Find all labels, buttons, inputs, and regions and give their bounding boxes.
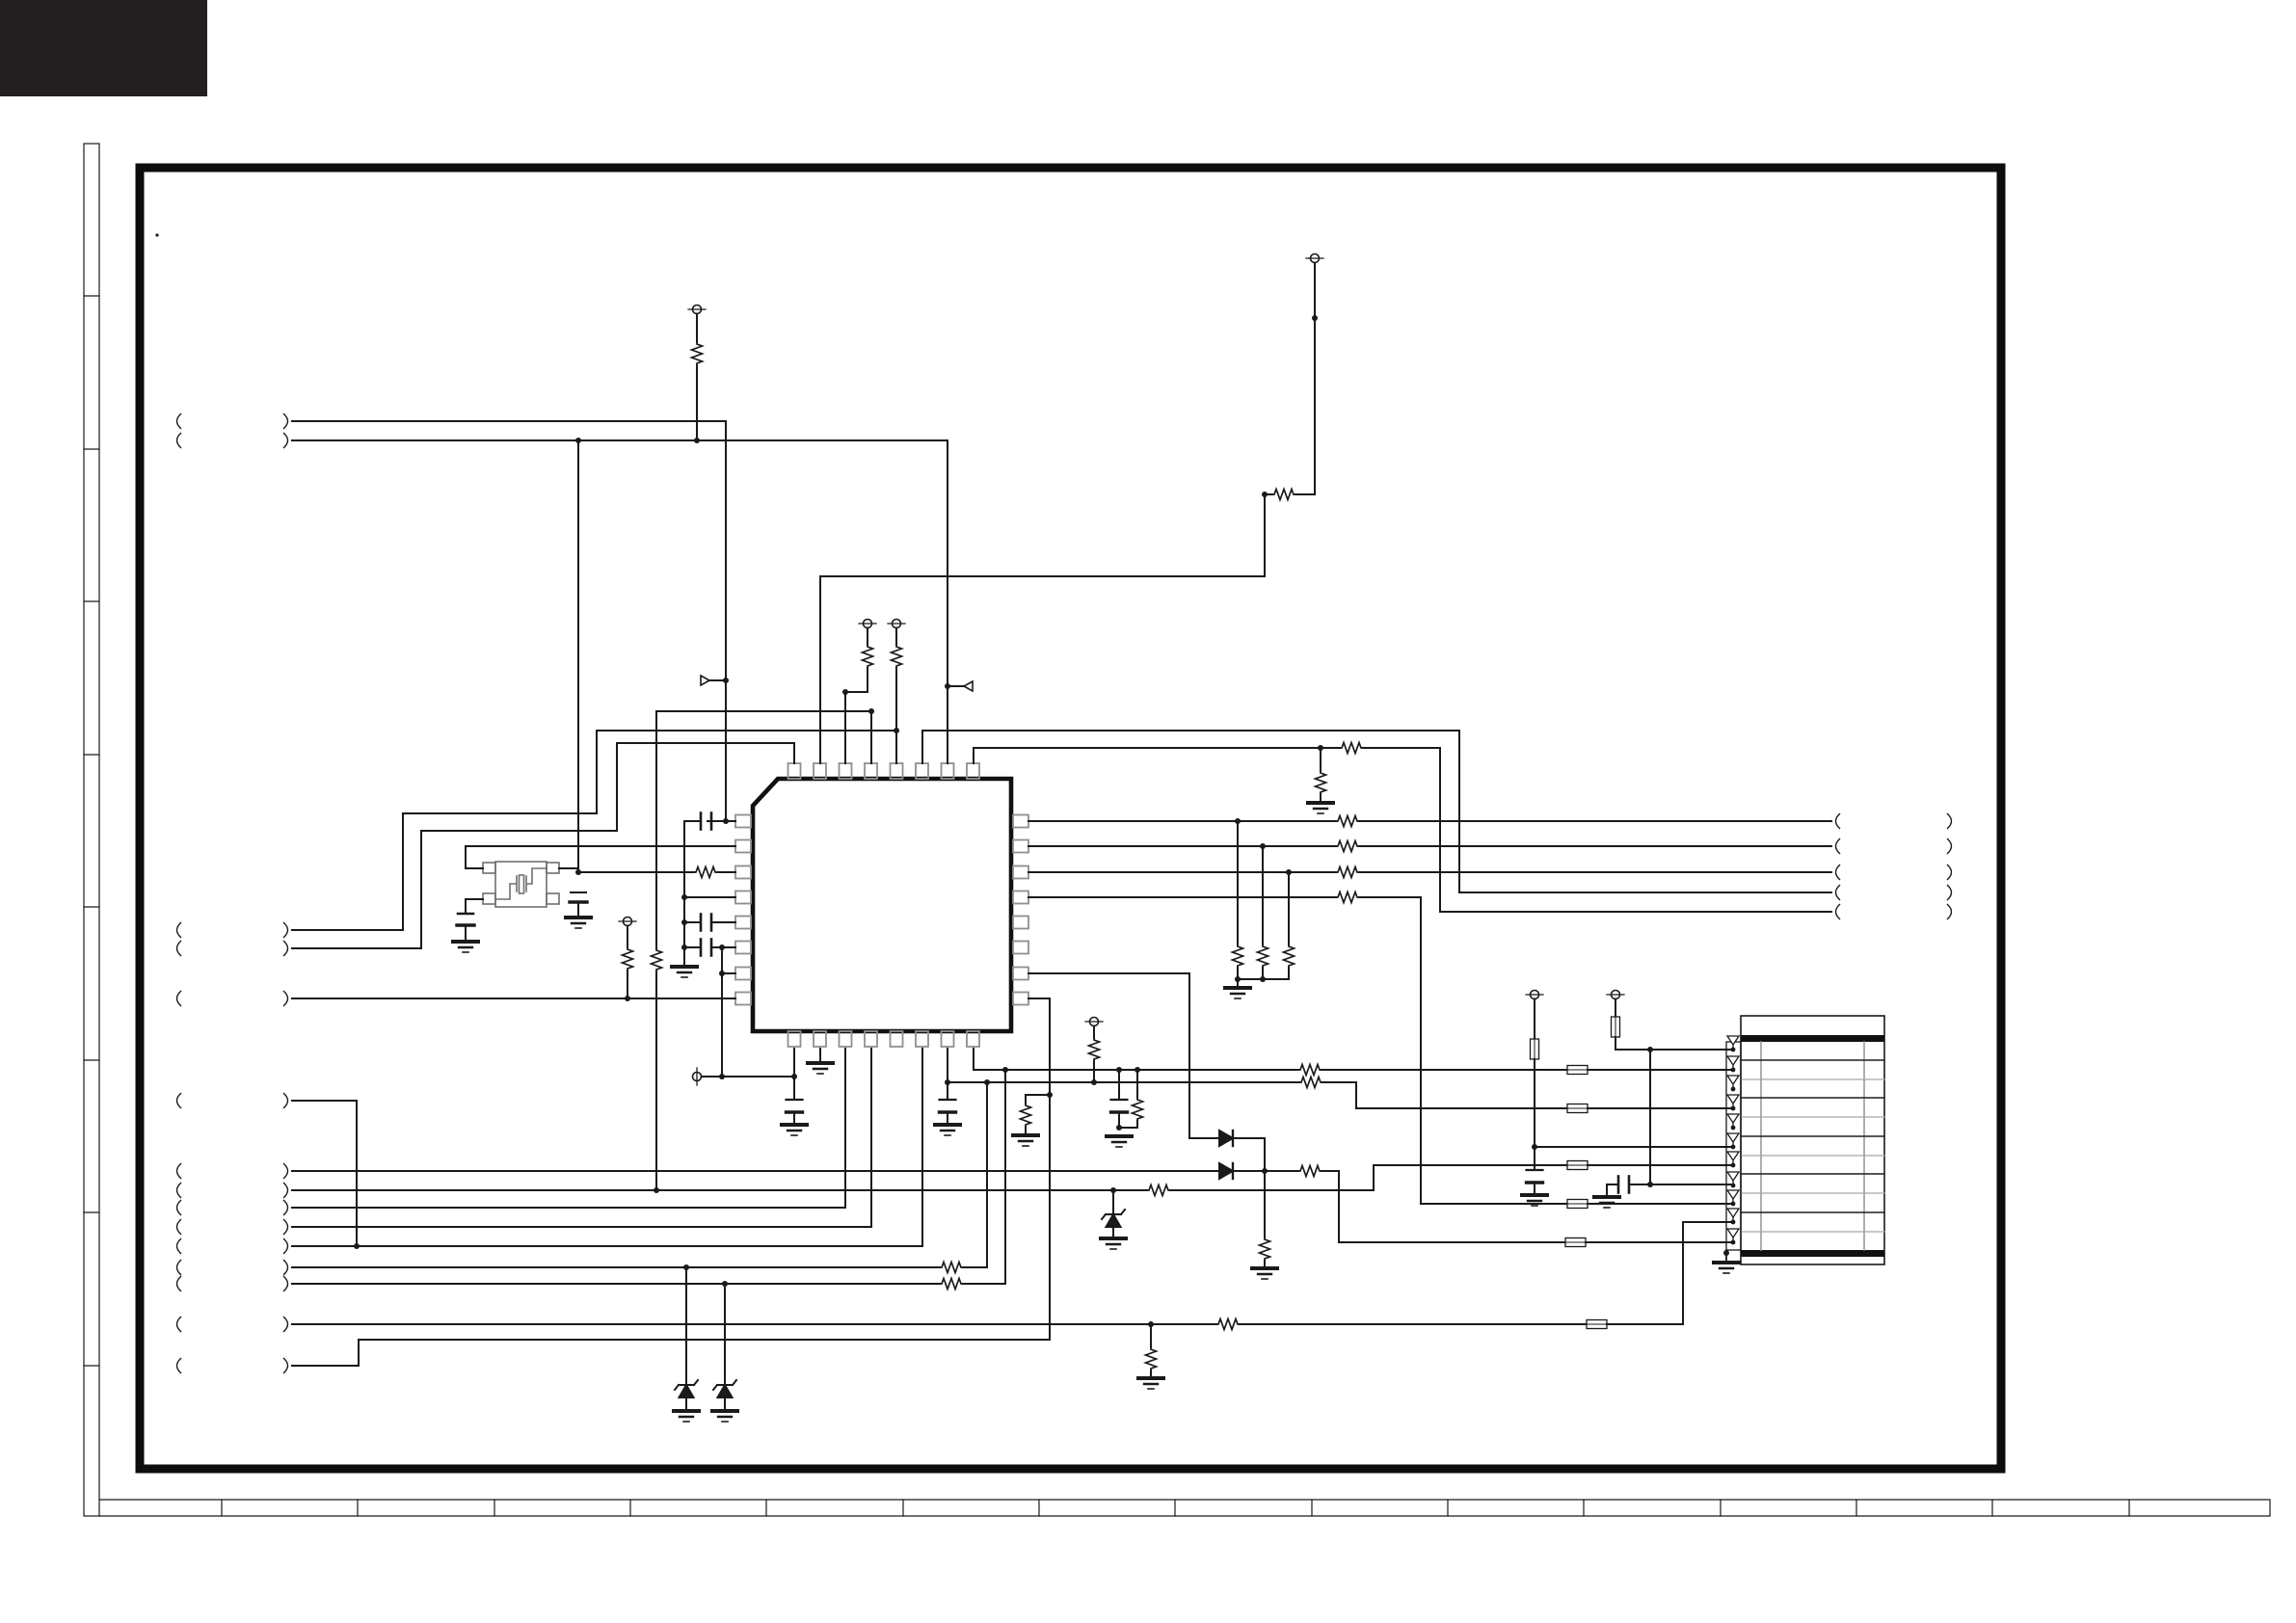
resistor R12 horizontal row1315 xyxy=(940,1263,963,1273)
terminal T5 xyxy=(619,918,636,926)
junction arrow stub B xyxy=(945,683,950,689)
junction phi row pin1B xyxy=(791,1074,797,1079)
wire pin4R row y931 xyxy=(1028,896,1336,898)
ground below rail x710 xyxy=(672,967,697,977)
connector pin 2 xyxy=(1727,1056,1739,1072)
junction D1 D2 node xyxy=(1262,1168,1268,1174)
resistor R10 horizontal on row1123 xyxy=(1299,1078,1322,1088)
wire F8 to connector pin1 row xyxy=(1615,1037,1730,1050)
wire R5 to pin5T xyxy=(895,668,897,763)
wire ZD3 to ground xyxy=(1112,1227,1114,1237)
wire row1215 to diode D2 xyxy=(292,1170,1219,1172)
wire row1123 from pin7B net xyxy=(948,1081,1299,1083)
wire R2 leads xyxy=(1265,493,1315,495)
resistor R5 vertical xyxy=(892,645,902,668)
wire pin6 row xyxy=(1535,1146,1730,1148)
wire phi row xyxy=(702,1076,795,1078)
junction x1712 pin8 row xyxy=(1647,1182,1653,1187)
terminal T6 xyxy=(1085,1018,1103,1026)
right closing arc row926 xyxy=(1948,886,1952,900)
wire pin2L to crystal TL pin xyxy=(466,846,735,868)
junction x749 phi row xyxy=(719,1074,725,1079)
wire crystal junction vertical x600 xyxy=(577,440,579,872)
wire net A horizontal+vertical to pin1L cap xyxy=(292,421,726,821)
resistor R4 vertical xyxy=(863,645,873,668)
resistor R17 horizontal row878 xyxy=(1336,841,1359,852)
connector CN1 outer body xyxy=(1741,1016,1884,1264)
wire R11 to row1123 xyxy=(1093,1061,1095,1082)
capacitor C2 below crystal junction xyxy=(571,891,586,893)
junction row1235 zener xyxy=(1110,1187,1116,1193)
wire R21 to common xyxy=(1288,968,1290,979)
ground below C8 xyxy=(1107,1136,1132,1147)
connector pin 6 xyxy=(1727,1133,1739,1149)
off-page connector pair net B left xyxy=(177,434,181,448)
junction pin4T corner xyxy=(868,708,874,714)
wire F4 to connector pin11 xyxy=(1586,1241,1730,1243)
junction x1089 R26 xyxy=(1047,1092,1053,1098)
wire row852 to right OPC xyxy=(1359,820,1831,822)
resistor R22 horizontal row931 xyxy=(1336,892,1359,903)
ground below C10 lead xyxy=(1594,1197,1619,1208)
wire row1215 jog down to pin11 row xyxy=(1322,1171,1565,1242)
wire drop x1712 from pin1 row to pin8 row xyxy=(1649,1050,1651,1184)
right arc row1235 xyxy=(284,1184,288,1198)
capacitor C2 lower plate xyxy=(570,900,587,903)
wire row1142 to row1293 drop xyxy=(292,1101,357,1246)
wire pin2R row y878 xyxy=(1028,845,1336,847)
wire pin8R long drop to row1390 xyxy=(359,998,1050,1340)
wire C1 leads xyxy=(684,820,735,822)
wire zener ZD3 drop on row1235 xyxy=(1112,1190,1114,1214)
ground below C2 xyxy=(566,918,591,928)
junction T6 row1123 xyxy=(1091,1079,1097,1085)
resistor R20 vertical xyxy=(1258,945,1268,968)
junction row1374 R28 xyxy=(1148,1321,1154,1327)
wire pin6B to row1293 xyxy=(292,1049,922,1246)
wire C4 leads xyxy=(684,921,735,923)
right closing arc row946 xyxy=(1948,905,1952,919)
right arc row1142 xyxy=(284,1094,288,1108)
wire branch resistor R26 from x1089 xyxy=(1026,1095,1050,1104)
junction C8 row1110 xyxy=(1116,1067,1122,1073)
IC U1 body xyxy=(753,779,1011,1031)
wire net pin2T: down, left run y598, down to pin2T xyxy=(820,494,1265,763)
wire net S1 staircase to pin6T and right OPC y926 xyxy=(292,731,896,930)
zener diode ZD2 xyxy=(713,1380,736,1397)
junction net B x723 xyxy=(694,438,700,443)
junction T2 wire xyxy=(1312,315,1318,321)
wire R23 to ground xyxy=(1264,1261,1266,1266)
wire C2 to ground xyxy=(577,903,579,916)
junction x749 top xyxy=(719,945,725,950)
wire row1110 to fuse F2 xyxy=(1322,1069,1567,1071)
wire R7 to ground xyxy=(1320,794,1322,801)
capacitor C5 at pin6L xyxy=(701,940,711,956)
junction x1043 row1110 xyxy=(1002,1067,1008,1073)
capacitor C8 on row1110 xyxy=(1111,1100,1128,1112)
wire pin4B to row1273 xyxy=(292,1049,871,1227)
connector CN1 pin housing strip xyxy=(1726,1042,1741,1250)
wire pin1B down xyxy=(793,1049,795,1100)
ground below C6 xyxy=(782,1125,807,1135)
wire R9 to pin8L row xyxy=(627,971,628,998)
main schematic border frame xyxy=(140,168,2001,1469)
junction pulldown rail a xyxy=(1235,976,1241,982)
wire row878 to right OPC xyxy=(1359,845,1831,847)
wire pin3B to row1253 xyxy=(292,1049,845,1208)
junction T5 pin8L row xyxy=(625,996,630,1001)
arrow head right-pointing xyxy=(701,676,709,685)
junction T7 pin6 row xyxy=(1532,1144,1537,1150)
wire crystal TR pin to junction xyxy=(559,867,578,869)
wire T1 to resistor R1 xyxy=(696,314,698,343)
ground below ZD2 xyxy=(712,1411,737,1422)
wire zener ZD1 drop xyxy=(685,1267,687,1385)
fuse F3 on pin9 row xyxy=(1567,1200,1588,1209)
connector pin 9 xyxy=(1727,1190,1739,1206)
wire C8 leads xyxy=(1118,1070,1120,1128)
off-page connector row1332 arcs xyxy=(177,1277,181,1291)
vertical rail x749 xyxy=(721,947,723,1077)
off-page connector right row926 arcs xyxy=(1836,886,1840,900)
right arc row1273 xyxy=(284,1220,288,1235)
terminal T1 supply xyxy=(688,306,706,314)
wire pin3L lead xyxy=(578,871,694,873)
off-page connector row1273 arcs xyxy=(177,1220,181,1235)
wire branch to resistor R7 xyxy=(1320,748,1322,771)
junction pin7B row1123 xyxy=(945,1079,950,1085)
connector CN1 top black bar xyxy=(1741,1035,1884,1042)
capacitor C1 at pin1L xyxy=(701,813,711,830)
off-page connector row1253 arcs xyxy=(177,1201,181,1215)
wire net B horizontal to x983 then down to pin7T xyxy=(292,440,948,763)
junction T8 pin1 row xyxy=(1647,1047,1653,1052)
wire R19 to common xyxy=(1237,968,1239,979)
connector pin 10 xyxy=(1727,1209,1739,1224)
resistor R23 vertical below D1 xyxy=(1260,1237,1270,1261)
bottom fold ruler strip xyxy=(99,1500,2270,1516)
capacitor C9 below pin6 junction xyxy=(1527,1170,1543,1183)
right arc row1215 xyxy=(284,1164,288,1179)
wire row1332 xyxy=(292,1283,940,1285)
resistor R28 vertical xyxy=(1146,1347,1157,1370)
wire row1235 jog up to pin7 row xyxy=(1170,1165,1567,1190)
off-page connector right row946 arcs xyxy=(1836,905,1840,919)
ground below C7 xyxy=(935,1125,960,1135)
IC U1 right pin boxes xyxy=(1013,815,1028,1005)
wire R4 to pin3T xyxy=(845,668,868,763)
wire R26 to ground xyxy=(1025,1127,1027,1133)
IC U1 top pin boxes xyxy=(788,763,980,779)
off-page connector row1315 arcs xyxy=(177,1261,181,1275)
junction row905 pulldown xyxy=(1286,869,1292,875)
ground below R28 xyxy=(1138,1378,1163,1389)
resistor R7 vertical xyxy=(1316,771,1326,794)
wire R15 leads xyxy=(1119,1070,1137,1128)
junction x710 pin6L xyxy=(681,945,687,950)
wire C10 ground lead xyxy=(1606,1184,1608,1195)
junction net B x600 xyxy=(575,438,581,443)
wire R12 to riser x1024 xyxy=(963,1266,987,1268)
off-page connector row1215 arcs xyxy=(177,1164,181,1179)
ground below R7 xyxy=(1308,803,1333,813)
wire F7 down to pin6 row junction xyxy=(1534,1059,1535,1170)
net stub arrow at node A xyxy=(709,679,726,681)
resistor R26 vertical xyxy=(1021,1104,1031,1127)
off-page connector S1 right arc xyxy=(284,923,288,938)
wire T6 to R11 xyxy=(1093,1026,1095,1039)
wire R28 to ground xyxy=(1150,1370,1152,1376)
wire F6 jog up to connector pin10 xyxy=(1607,1222,1730,1324)
off-page connector right row905 arcs xyxy=(1836,865,1840,880)
wire row1123 jog down to connector pin4 row xyxy=(1322,1082,1567,1108)
wire pulldown drop x1310 xyxy=(1262,846,1264,945)
junction pulldown rail b xyxy=(1260,976,1266,982)
junction pin5T W2 xyxy=(894,728,899,733)
right closing arc row905 xyxy=(1948,865,1952,880)
terminal T4 xyxy=(888,620,905,628)
wire row931 to connector pin9 row xyxy=(1359,897,1567,1204)
junction row878 pulldown xyxy=(1260,843,1266,849)
right arc row1417 xyxy=(284,1359,288,1373)
junction connector ground xyxy=(1723,1250,1729,1256)
resistor R16 horizontal row852 xyxy=(1336,816,1359,827)
left fold ruler strip xyxy=(84,144,99,1516)
wire C6 to ground xyxy=(793,1112,795,1123)
wire pin4L xyxy=(684,896,735,898)
right arc row1315 xyxy=(284,1261,288,1275)
junction R15 row1110 xyxy=(1135,1067,1140,1073)
zener diode ZD3 xyxy=(1102,1210,1125,1227)
wire pin6T drop xyxy=(921,731,923,763)
off-page connector row1417 arcs xyxy=(177,1359,181,1373)
wire ZD1 to ground xyxy=(685,1397,687,1409)
connector pin 3 xyxy=(1727,1076,1739,1091)
junction row1315 zener xyxy=(683,1264,689,1270)
capacitor C4 at pin5L xyxy=(701,915,711,931)
junction pin8T branch xyxy=(1318,745,1323,751)
resistor R27 horizontal row1374 xyxy=(1216,1319,1240,1330)
crystal X1 body xyxy=(483,862,559,907)
off-page connector net A right arc xyxy=(284,414,288,429)
wire pulldown drop x1284 xyxy=(1237,821,1239,945)
off-page connector S2 left arc xyxy=(177,942,181,956)
wire C7 to ground xyxy=(947,1112,948,1123)
off-page connector pair net A left xyxy=(177,414,181,429)
capacitor C6 below pin1B xyxy=(787,1100,803,1112)
junction row1293 x370 xyxy=(354,1243,360,1249)
ground below ZD1 xyxy=(674,1411,699,1422)
resistor R19 vertical xyxy=(1233,945,1243,968)
wire R20 to common xyxy=(1262,968,1264,979)
resistor R1 vertical xyxy=(692,342,703,365)
right arc row1374 xyxy=(284,1317,288,1332)
wire pin8L long row xyxy=(292,998,735,999)
junction T3 jog xyxy=(842,689,848,695)
IC U1 bottom pin boxes xyxy=(788,1031,980,1047)
resistor R6 horizontal on pin8T net xyxy=(1340,743,1363,754)
fuse F2 on connector pin2 row xyxy=(1567,1066,1588,1075)
wire fuse F1 to connector pin4 xyxy=(1588,1107,1730,1109)
ground below pulldown rail xyxy=(1225,988,1250,998)
capacitor C7 below pin7B xyxy=(940,1100,956,1112)
diode D1 xyxy=(1219,1131,1233,1146)
wire pin8B to row1110 xyxy=(974,1049,1298,1070)
junction crystal node xyxy=(575,869,581,875)
resistor R14 horizontal row1110 xyxy=(1298,1065,1322,1076)
wire pin8T net to right OPC y946 xyxy=(1363,748,1831,912)
terminal T7 xyxy=(1526,991,1543,999)
wire T8 to fuse F8 xyxy=(1615,999,1616,1018)
capacitor C10 plates xyxy=(1618,1177,1629,1193)
resistor R8 horizontal to pin3L xyxy=(694,867,717,878)
connector pin 1 xyxy=(1727,1036,1739,1051)
wire crystal BL pin to C3 xyxy=(466,899,483,914)
resistor R15 vertical parallel C8 xyxy=(1133,1098,1143,1121)
wire C5 leads xyxy=(684,946,735,948)
right closing arc row878 xyxy=(1948,839,1952,854)
wire vertical x1024 row1315 riser xyxy=(986,1082,988,1267)
junction x749 pin7L xyxy=(719,971,725,976)
wire row1235 xyxy=(292,1189,1147,1191)
wire zener ZD2 drop xyxy=(724,1284,726,1385)
wire pin6T to right OPC y926 xyxy=(922,731,1831,892)
wire pin7R to diode D1 xyxy=(1028,973,1219,1138)
wire F3 to connector pin9 xyxy=(1588,1203,1730,1205)
connector pin 8 xyxy=(1727,1172,1739,1187)
off-page connector pin8L left arc xyxy=(177,992,181,1006)
resistor R21 vertical xyxy=(1284,945,1295,968)
wire branch resistor R28 on row1374 xyxy=(1150,1324,1152,1347)
junction row1332 zener xyxy=(722,1281,728,1287)
ground below R23 xyxy=(1252,1268,1277,1279)
right arc row1253 xyxy=(284,1201,288,1215)
wire vertical x1043 riser xyxy=(1004,1070,1006,1284)
off-page connector S1 left arc xyxy=(177,923,181,938)
net stub arrow at node B xyxy=(948,685,964,687)
connector pin 7 xyxy=(1727,1152,1739,1167)
connector CN1 bottom black bar xyxy=(1741,1250,1884,1257)
wire row1374 to fuse F6 xyxy=(1240,1323,1587,1325)
connector CN1 row divider lines xyxy=(1741,1060,1884,1212)
wire R1 to net B xyxy=(696,365,698,440)
wire T2 down to resistor R2 xyxy=(1314,263,1316,495)
resistor R25 horizontal row1235 xyxy=(1147,1185,1170,1196)
off-page connector right row878 arcs xyxy=(1836,839,1840,854)
resistor R24 horizontal row1215 xyxy=(1298,1166,1322,1177)
junction x710 pin5L xyxy=(681,919,687,925)
resistor R3 vertical on x681 xyxy=(652,948,662,971)
wire row1374 xyxy=(292,1323,1216,1325)
fuse F6 on row1374 xyxy=(1587,1320,1607,1329)
connector pin 5 xyxy=(1727,1114,1739,1130)
terminal T8 xyxy=(1607,991,1624,999)
fuse F4 on pin11 row xyxy=(1565,1238,1586,1247)
connector CN1 inner gray columns xyxy=(1761,1042,1864,1250)
wire pulldown ground stem xyxy=(1237,979,1239,986)
fuse F8 vertical xyxy=(1612,1017,1620,1037)
right arc row1293 xyxy=(284,1239,288,1254)
resistor R11 vertical xyxy=(1089,1038,1100,1061)
wire C9 to ground xyxy=(1534,1183,1535,1193)
wire pin8 row with capacitor C10 xyxy=(1607,1184,1730,1185)
resistor R2 horizontal xyxy=(1272,490,1295,500)
wire R13 to riser x1043 xyxy=(963,1283,1005,1285)
connector pin 11 xyxy=(1727,1229,1739,1244)
wire T3 to resistor R4 xyxy=(867,628,868,646)
IC U1 left pin boxes xyxy=(735,815,751,1005)
junction pin1L cap xyxy=(723,818,729,824)
wire row905 to right OPC xyxy=(1359,871,1831,873)
capacitor C3 plates xyxy=(458,913,473,916)
wire T4 to resistor R5 xyxy=(895,628,897,646)
wire pin3R row y905 xyxy=(1028,871,1336,873)
wire R8 to pin3L xyxy=(717,871,735,873)
resistor R18 horizontal row905 xyxy=(1336,867,1359,878)
right closing arc row852 xyxy=(1948,814,1952,829)
stray page dot xyxy=(155,233,158,236)
wire net S2 staircase to pin1T xyxy=(292,743,794,948)
junction x681 row1235 xyxy=(654,1187,659,1193)
wire pulldown drop x1337 xyxy=(1288,872,1290,945)
junction C8 R15 bottom xyxy=(1116,1125,1122,1131)
wire D1 cathode to drop x1312 xyxy=(1235,1138,1265,1237)
wire F5 to connector pin7 xyxy=(1588,1164,1730,1166)
off-page connector right row852 arcs xyxy=(1836,814,1840,829)
wire pin2B stub xyxy=(819,1049,821,1061)
terminal T3 xyxy=(859,620,876,628)
wire row1417 riser xyxy=(292,1340,359,1366)
fuse F5 on pin7 row xyxy=(1567,1161,1588,1170)
junction x710 pin4L xyxy=(681,894,687,900)
capacitor C3 lower plate xyxy=(457,923,474,926)
ground below pin2B xyxy=(808,1063,833,1074)
fuse F1 on pin4 row xyxy=(1567,1104,1588,1113)
wire ZD2 to ground xyxy=(724,1397,726,1409)
wire row1315 xyxy=(292,1266,940,1268)
wire net pin4T (W3) xyxy=(656,711,871,948)
wire C3 to ground xyxy=(465,926,467,940)
ground below C3 xyxy=(453,942,478,952)
wire T5 to R9 xyxy=(627,926,628,948)
wire F2 to connector pin2 xyxy=(1588,1069,1730,1071)
ground below C9 xyxy=(1522,1195,1547,1206)
off-page connector row1293 arcs xyxy=(177,1239,181,1254)
vertical rail x710 xyxy=(683,821,685,965)
wire net pin8T run xyxy=(974,748,1340,763)
resistor R13 horizontal row1332 xyxy=(940,1279,963,1290)
wire pulldown common rail xyxy=(1238,978,1289,980)
wire pin1R row y852 xyxy=(1028,820,1336,822)
connector CN1 light row lines xyxy=(1741,1079,1884,1232)
diode D2 xyxy=(1219,1163,1233,1179)
fuse F7 vertical xyxy=(1531,1039,1539,1059)
junction row852 pulldown xyxy=(1235,818,1241,824)
junction x1024 row1123 xyxy=(984,1079,990,1085)
right arc row1332 xyxy=(284,1277,288,1291)
wire pin7L xyxy=(722,972,735,974)
ground below connector xyxy=(1714,1263,1739,1273)
terminal T2 supply top right xyxy=(1306,254,1323,263)
arrow head left-pointing xyxy=(964,681,973,691)
off-page connector pin8L right arc xyxy=(284,992,288,1006)
wire T7 to fuse F7 xyxy=(1534,999,1535,1040)
ground below ZD3 xyxy=(1101,1238,1126,1249)
connector pin 4 xyxy=(1727,1095,1739,1110)
wire pin7B down xyxy=(947,1049,948,1100)
junction R2 left xyxy=(1262,492,1268,497)
